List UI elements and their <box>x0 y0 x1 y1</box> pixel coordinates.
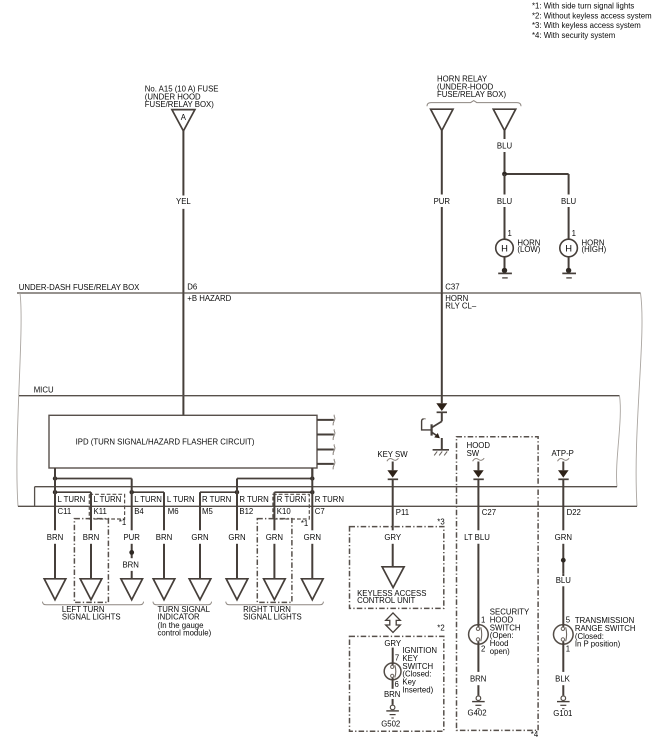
svg-text:C7: C7 <box>315 507 325 516</box>
horn low <box>496 239 541 257</box>
svg-text:C11: C11 <box>58 507 72 516</box>
svg-text:KEY SW: KEY SW <box>377 450 408 459</box>
security variant box *4 <box>457 437 539 731</box>
svg-text:*3: With keyless access system: *3: With keyless access system <box>532 21 641 30</box>
node left output <box>53 476 57 480</box>
wire left bus <box>55 478 132 480</box>
lamp connector K11 <box>80 579 102 600</box>
bracket left turn group <box>43 602 144 605</box>
svg-text:M5: M5 <box>202 507 213 516</box>
svg-text:*2: *2 <box>437 624 444 633</box>
svg-text:B12: B12 <box>239 507 253 516</box>
HOOD SW arrow into MICU edge <box>473 462 484 480</box>
IPD output stub 1 <box>317 415 335 426</box>
svg-text:D22: D22 <box>567 508 581 517</box>
svg-text:INDICATOR: INDICATOR <box>158 612 201 621</box>
svg-text:2: 2 <box>481 645 485 654</box>
wire branch to horns <box>505 173 569 175</box>
keyless access connector <box>382 567 404 588</box>
svg-text:GRY: GRY <box>384 639 402 648</box>
svg-text:L TURN: L TURN <box>167 495 195 504</box>
wire PUR relay to C37 <box>434 131 451 293</box>
svg-text:7: 7 <box>395 653 399 662</box>
connector L TURN B4 <box>134 495 162 516</box>
svg-text:R TURN: R TURN <box>239 495 268 504</box>
wire BRN M6 <box>156 492 172 579</box>
right turn signal lights label <box>243 605 302 621</box>
svg-text:BRN: BRN <box>122 561 138 570</box>
connector R TURN B12 <box>239 495 268 516</box>
ATP-P arrow into MICU edge <box>558 462 569 480</box>
connector R TURN C7 <box>315 495 344 516</box>
ground G101 <box>553 696 572 718</box>
svg-text:M6: M6 <box>168 507 179 516</box>
wire BLU to range switch <box>556 573 572 625</box>
svg-text:*4: With security system: *4: With security system <box>532 31 615 40</box>
wire branch K10 <box>274 491 312 493</box>
svg-text:G502: G502 <box>381 720 400 729</box>
svg-text:PUR: PUR <box>434 197 451 206</box>
wire GRN D22 <box>555 480 572 573</box>
diode into transistor <box>436 293 447 421</box>
wire GRN M5 <box>191 492 208 579</box>
svg-text:+B HAZARD: +B HAZARD <box>187 294 231 303</box>
svg-text:In P position): In P position) <box>575 640 621 649</box>
bracket indicator group <box>153 602 212 605</box>
lamp connector C11 <box>44 579 66 600</box>
svg-text:BLU: BLU <box>561 197 577 206</box>
connector L TURN C11 <box>58 495 86 516</box>
MICU bottom left cap <box>34 487 36 507</box>
wire GRN B12 <box>228 479 245 579</box>
wire branch M5 <box>200 491 237 493</box>
ground horn high <box>562 257 576 278</box>
horn relay label <box>437 75 506 99</box>
svg-text:ATP-P: ATP-P <box>552 449 574 458</box>
transmission range switch <box>554 625 574 645</box>
IPD output stub 3 <box>317 444 335 455</box>
connector R TURN M5 <box>202 495 231 516</box>
svg-text:D6: D6 <box>187 282 197 291</box>
svg-text:BRN: BRN <box>384 690 400 699</box>
lamp connector M5 <box>189 579 211 600</box>
IPD output stub 4 <box>317 459 335 470</box>
svg-text:5: 5 <box>566 615 571 624</box>
svg-text:H: H <box>501 243 508 254</box>
svg-text:1: 1 <box>508 229 512 238</box>
MICU right torn edge <box>617 396 621 487</box>
variant box K10 lamp <box>257 519 292 603</box>
svg-text:1: 1 <box>481 615 485 624</box>
horn high <box>560 239 607 257</box>
chassis ground transistor <box>433 450 449 456</box>
connector R TURN K10 <box>277 495 306 516</box>
connector L TURN K11 <box>94 495 122 516</box>
variant box K11 label <box>89 494 124 519</box>
HOOD SW continuation hook <box>473 458 485 461</box>
svg-text:BLU: BLU <box>556 576 572 585</box>
svg-text:*1: With side turn signal ligh: *1: With side turn signal lights <box>532 2 634 11</box>
svg-text:SIGNAL LIGHTS: SIGNAL LIGHTS <box>243 612 302 621</box>
lamp connector M6 <box>153 579 175 600</box>
ignition key switch <box>384 663 401 680</box>
IPD (turn signal/hazard flasher circuit) <box>49 415 317 468</box>
KEY SW arrow into MICU edge <box>387 462 398 480</box>
svg-text:BLK: BLK <box>555 675 571 684</box>
HOOD SW label <box>467 441 491 458</box>
svg-text:Inserted): Inserted) <box>402 686 433 695</box>
wire BRN security ground <box>470 644 486 695</box>
svg-text:MICU: MICU <box>34 386 54 395</box>
svg-text:H: H <box>565 243 572 254</box>
under-dash box top edge <box>17 292 641 294</box>
turn signal indicator label <box>158 605 212 638</box>
lamp connector K10 <box>264 579 286 600</box>
wire GRN K10 <box>266 492 283 579</box>
svg-text:UNDER-DASH FUSE/RELAY BOX: UNDER-DASH FUSE/RELAY BOX <box>19 283 140 292</box>
fuse A15 label <box>145 85 219 109</box>
wire branch M6 <box>132 491 164 493</box>
left turn signal lights label <box>62 605 121 621</box>
wire PUR/BRN B4 <box>122 479 140 579</box>
wire LT BLU C27 <box>464 480 490 625</box>
wire BRN K11 <box>83 492 99 579</box>
svg-text:YEL: YEL <box>176 197 191 206</box>
KEY SW continuation hook <box>387 458 399 461</box>
svg-text:*1: *1 <box>301 519 308 528</box>
security hood switch <box>469 625 489 645</box>
ignition key switch label <box>402 646 437 695</box>
MICU top edge <box>19 395 620 397</box>
svg-text:GRN: GRN <box>191 533 208 542</box>
svg-text:GRN: GRN <box>304 533 321 542</box>
wire GRY P11 <box>384 480 402 567</box>
wire BRN ignition ground <box>384 680 400 705</box>
svg-text:R TURN: R TURN <box>277 495 306 504</box>
wire GRY ignition <box>384 639 402 663</box>
splice GRN/BLU <box>561 558 566 563</box>
svg-text:GRN: GRN <box>555 533 572 542</box>
wire into IPD <box>182 293 184 415</box>
keyless access variant box *3 <box>350 527 444 609</box>
svg-text:FUSE/RELAY BOX): FUSE/RELAY BOX) <box>437 90 506 99</box>
svg-text:GRY: GRY <box>384 533 402 542</box>
ground horn low <box>498 257 512 278</box>
svg-text:(LOW): (LOW) <box>517 245 540 254</box>
node B4 branch <box>130 490 134 494</box>
ATP-P continuation hook <box>558 458 570 461</box>
svg-text:B4: B4 <box>134 507 144 516</box>
svg-text:L TURN: L TURN <box>134 495 162 504</box>
svg-text:LT BLU: LT BLU <box>464 533 490 542</box>
horn relay bracket <box>427 101 521 107</box>
wire BRN C11 <box>47 468 63 579</box>
svg-text:C27: C27 <box>482 508 496 517</box>
lamp connector B4 <box>121 579 143 600</box>
svg-text:R TURN: R TURN <box>202 495 231 504</box>
fuse A15 connector A <box>172 110 195 131</box>
connector L TURN M6 <box>167 495 195 516</box>
under-dash left torn edge <box>17 293 21 506</box>
ground G402 <box>468 696 487 718</box>
svg-text:control module): control module) <box>158 629 212 638</box>
svg-text:K11: K11 <box>94 507 107 516</box>
security hood switch label <box>490 608 530 657</box>
svg-text:PUR: PUR <box>123 533 140 542</box>
junction splice <box>502 172 507 177</box>
svg-text:6: 6 <box>395 680 399 689</box>
ignition variant box *2 <box>350 636 444 731</box>
svg-text:G402: G402 <box>468 708 487 717</box>
wire BLU to horn high <box>561 174 577 239</box>
under-dash right torn edge <box>636 293 642 506</box>
svg-text:*1: *1 <box>119 518 126 527</box>
lamp connector B12 <box>226 579 248 600</box>
svg-text:BLU: BLU <box>497 197 513 206</box>
svg-text:FUSE/RELAY BOX): FUSE/RELAY BOX) <box>145 100 214 109</box>
svg-text:K10: K10 <box>277 507 292 516</box>
keyless access control unit label <box>357 589 426 605</box>
comm double arrow <box>386 613 401 633</box>
svg-text:C37: C37 <box>445 282 459 291</box>
wire IPD right output <box>311 468 313 479</box>
svg-text:BRN: BRN <box>156 533 172 542</box>
svg-text:A: A <box>181 113 187 122</box>
variant box K11 lamp <box>74 519 108 603</box>
svg-text:(HIGH): (HIGH) <box>582 245 607 254</box>
MICU bottom edge <box>35 486 617 488</box>
svg-text:G101: G101 <box>553 709 572 718</box>
node C7 branch <box>310 490 314 494</box>
wire right bus <box>237 478 312 480</box>
wire BLK range ground <box>555 644 571 695</box>
svg-text:*2: Without keyless access sys: *2: Without keyless access system <box>532 11 652 20</box>
wire IPD left output <box>54 468 56 479</box>
svg-text:GRN: GRN <box>266 533 283 542</box>
svg-text:BRN: BRN <box>470 675 486 684</box>
lamp connector C7 <box>302 579 324 600</box>
wire BLU to horn low <box>497 174 513 239</box>
svg-text:1: 1 <box>572 229 576 238</box>
node C11 branch <box>53 490 57 494</box>
svg-text:P11: P11 <box>396 508 409 517</box>
bracket right turn group <box>226 602 324 605</box>
svg-text:SW: SW <box>467 449 480 458</box>
svg-text:SIGNAL LIGHTS: SIGNAL LIGHTS <box>62 612 121 621</box>
wire branch K11 <box>55 491 91 493</box>
svg-text:CONTROL UNIT: CONTROL UNIT <box>357 596 415 605</box>
svg-text:GRN: GRN <box>228 533 245 542</box>
svg-text:L TURN: L TURN <box>58 495 86 504</box>
ground G502 <box>381 705 400 728</box>
wire YEL fuse to D6 <box>176 131 191 293</box>
svg-text:1: 1 <box>566 645 570 654</box>
transistor Q (horn relay driver) <box>422 419 442 449</box>
svg-text:open): open) <box>490 647 510 656</box>
node B12 branch <box>235 490 239 494</box>
horn relay connector 2 <box>493 109 515 130</box>
wire BLU relay down <box>497 131 513 174</box>
IPD output stub 2 <box>317 429 335 440</box>
transmission range switch label <box>575 616 636 649</box>
wire GRN C7 <box>304 468 321 579</box>
svg-text:*3: *3 <box>437 518 444 527</box>
svg-text:L TURN: L TURN <box>94 495 122 504</box>
svg-text:*4: *4 <box>531 730 539 739</box>
svg-text:IPD (TURN SIGNAL/HAZARD FLASHE: IPD (TURN SIGNAL/HAZARD FLASHER CIRCUIT) <box>76 437 255 446</box>
svg-text:BRN: BRN <box>83 533 99 542</box>
note legend <box>532 2 652 40</box>
svg-text:BLU: BLU <box>497 142 513 151</box>
under-dash box bottom edge <box>18 505 637 507</box>
horn relay connector 1 <box>431 109 453 130</box>
svg-text:RLY CL–: RLY CL– <box>445 301 477 310</box>
node right output <box>310 476 314 480</box>
net HORN RLY CL <box>445 294 477 310</box>
svg-text:R TURN: R TURN <box>315 495 344 504</box>
variant box K10 label <box>273 494 309 519</box>
svg-text:BRN: BRN <box>47 533 63 542</box>
